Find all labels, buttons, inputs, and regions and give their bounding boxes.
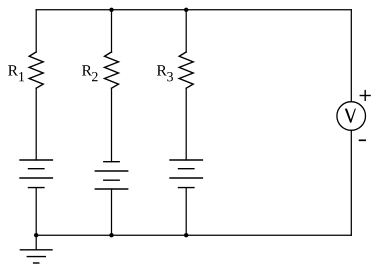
wire right bottom xyxy=(350,130,352,235)
ground xyxy=(20,250,52,263)
wire branch1 bottom xyxy=(35,188,37,236)
label R1 letter xyxy=(8,65,18,75)
wire branch1 mid xyxy=(35,88,37,160)
node junction bottom2 xyxy=(109,233,113,237)
node junction bottom3 xyxy=(184,233,188,237)
label R2 subscript xyxy=(92,72,98,81)
node junction top3 xyxy=(184,8,188,12)
wire branch2 bottom xyxy=(111,189,113,235)
battery B3 xyxy=(170,160,202,188)
wire branch1 top xyxy=(35,10,37,52)
resistor R1 xyxy=(29,52,43,88)
label R1 subscript xyxy=(19,72,24,81)
wire branch3 bottom xyxy=(185,188,187,236)
wire branch2 mid xyxy=(111,88,113,162)
wire branch3 mid xyxy=(185,88,187,160)
wire top bus xyxy=(36,9,351,11)
label R2 letter xyxy=(82,65,92,75)
wire right top xyxy=(350,10,352,102)
resistor R2 xyxy=(105,52,119,88)
label V meter letter xyxy=(345,109,356,123)
label R3 letter xyxy=(157,65,167,75)
minus label xyxy=(360,139,366,141)
resistor R3 xyxy=(179,52,193,88)
wire bottom bus xyxy=(36,234,351,236)
label R3 subscript xyxy=(167,72,173,81)
voltmeter U1 circle xyxy=(337,102,366,131)
plus label xyxy=(360,91,370,101)
battery B1 xyxy=(20,160,52,188)
wire branch3 top xyxy=(185,10,187,52)
node junction bottom1 xyxy=(34,233,38,237)
wire branch2 top xyxy=(111,10,113,52)
node junction top2 xyxy=(109,8,113,12)
battery B2 xyxy=(95,162,127,189)
wire ground stub xyxy=(35,235,37,250)
